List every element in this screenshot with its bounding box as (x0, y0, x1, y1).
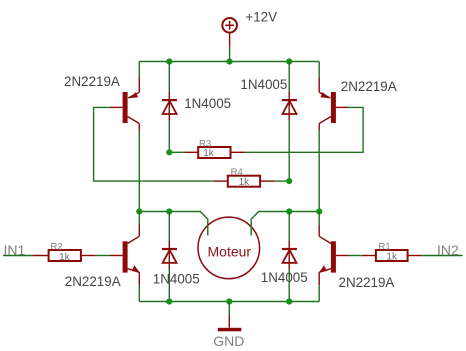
wire motor rail left (139, 212, 208, 236)
transistor Q3 2N2219A bottom-left (110, 212, 139, 302)
supply +12V symbol P1 (222, 18, 237, 48)
node junction motor-left column (136, 208, 142, 214)
wire left column mid (138, 130, 140, 212)
wire bottom rail (139, 301, 319, 303)
wire top rail (139, 61, 319, 63)
diode D2 1N4005 top-right (282, 62, 297, 182)
resistor R1 1k (349, 250, 422, 261)
svg-text:1k: 1k (386, 251, 398, 262)
svg-text:GND: GND (213, 333, 244, 349)
svg-text:1N4005: 1N4005 (240, 77, 287, 92)
motor M1 (198, 217, 260, 279)
node junction top-right diode (286, 58, 292, 64)
node junction R3 tap (166, 149, 172, 155)
svg-text:IN2: IN2 (437, 242, 459, 258)
svg-text:1N4005: 1N4005 (153, 271, 200, 286)
node junction top-left diode (166, 58, 172, 64)
svg-text:IN1: IN1 (4, 242, 26, 258)
diode D1 1N4005 top-left (162, 62, 177, 153)
node junction R4 tap (286, 178, 292, 184)
node junction motor-left diode (166, 208, 172, 214)
resistor R2 1k (32, 250, 110, 261)
svg-text:1k: 1k (59, 252, 71, 263)
node junction supply (226, 58, 232, 64)
svg-text:1k: 1k (203, 148, 215, 159)
wire motor rail right (251, 212, 319, 236)
diode D4 1N4005 bottom-right (282, 212, 297, 302)
svg-text:R2: R2 (51, 241, 63, 252)
transistor Q2 2N2219A top-right (319, 62, 349, 131)
node junction bottom-right diode (286, 298, 292, 304)
transistor Q4 2N2219A bottom-right (319, 212, 348, 302)
wire supply stem (229, 48, 231, 62)
resistor R4 1k (214, 176, 289, 187)
node junction motor-right diode (286, 208, 292, 214)
diode D3 1N4005 bottom-left (162, 212, 177, 302)
svg-text:1N4005: 1N4005 (261, 270, 308, 285)
resistor R3 1k (169, 147, 245, 158)
node junction GND stem (226, 298, 232, 304)
svg-text:2N2219A: 2N2219A (64, 74, 120, 89)
wire left emitter drop (138, 62, 140, 78)
svg-text:1N4005: 1N4005 (184, 96, 231, 111)
svg-text:Moteur: Moteur (208, 244, 252, 260)
svg-text:+12V: +12V (245, 10, 277, 25)
svg-text:2N2219A: 2N2219A (339, 275, 395, 290)
svg-text:1k: 1k (239, 177, 251, 188)
svg-text:2N2219A: 2N2219A (341, 79, 397, 94)
wire left base loop (94, 107, 214, 181)
wire IN2 (422, 255, 463, 257)
wire IN1 (3, 255, 32, 257)
wire right column mid (318, 130, 320, 212)
ground GND symbol (218, 302, 242, 332)
wire right base loop (245, 107, 363, 152)
node junction motor-right column (316, 208, 322, 214)
svg-text:2N2219A: 2N2219A (65, 274, 121, 289)
node junction bottom-left diode (166, 298, 172, 304)
transistor Q1 2N2219A top-left (110, 77, 140, 130)
